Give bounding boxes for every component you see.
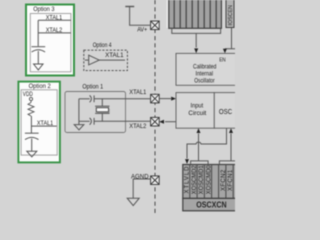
svg-text:OSC: OSC xyxy=(219,109,232,116)
wire capacitor to ground (Option 3) xyxy=(37,51,39,64)
ground (Option 2) xyxy=(27,151,37,157)
bracket over XFCN cells xyxy=(219,161,235,164)
svg-text:Option 1: Option 1 xyxy=(82,83,103,90)
arrow into calibrated oscillator (bracket) xyxy=(194,48,198,53)
wire XTAL1 pin (Option 3) xyxy=(38,19,71,21)
wire OSC to XTLVLD bit xyxy=(187,128,227,158)
wire XTAL2 pin (Option 3) xyxy=(38,32,71,34)
ground (Option 3) xyxy=(34,64,43,70)
pad XTAL2 xyxy=(151,117,160,126)
wire AGND pad to ground xyxy=(133,179,150,198)
register name band OSCXCN xyxy=(183,198,241,210)
register OSCXCN xyxy=(183,165,241,199)
svg-text:Calibrated: Calibrated xyxy=(193,63,217,70)
wire XFCN bits to OSC xyxy=(230,134,232,161)
svg-text:EN: EN xyxy=(219,57,226,63)
calibrated internal oscillator box xyxy=(176,53,252,85)
wire rail to ground (Option 1) xyxy=(78,121,80,124)
capacitor (Option 2) xyxy=(25,133,39,139)
wire resistor to node (Option 2) xyxy=(30,116,32,133)
wire cap to XTAL1 pad (Option 1) xyxy=(94,98,150,100)
ground (Option 1) xyxy=(74,125,84,130)
AV+ power symbol xyxy=(125,7,150,26)
pad AGND xyxy=(151,176,160,185)
svg-text:XTAL1: XTAL1 xyxy=(129,89,147,96)
bracket under OSCICN register xyxy=(172,28,221,33)
node circle VDD (Option 2) xyxy=(29,97,32,100)
svg-text:XTLVLD: XTLVLD xyxy=(185,166,191,194)
svg-text:AV+: AV+ xyxy=(137,27,147,34)
chip boundary dashed line xyxy=(154,0,156,215)
svg-text:IOSCEN: IOSCEN xyxy=(228,5,234,26)
crystal (Option 1) xyxy=(95,106,110,113)
wire vertical rail (Option 3) xyxy=(37,20,39,46)
svg-text:Input: Input xyxy=(191,102,204,109)
svg-text:XOSCMD2: XOSCMD2 xyxy=(192,165,198,195)
svg-text:Option 3: Option 3 xyxy=(33,6,55,13)
wire VDD to resistor (Option 2) xyxy=(30,101,32,103)
svg-text:XOSCMD0: XOSCMD0 xyxy=(207,165,213,195)
option 4 xyxy=(84,42,128,70)
arrow into calibrated oscillator (EN) xyxy=(223,49,227,54)
wire capacitor to ground (Option 2) xyxy=(31,139,33,152)
input circuit box xyxy=(176,93,214,129)
svg-text:XTAL2: XTAL2 xyxy=(129,123,147,130)
svg-text:XTAL1: XTAL1 xyxy=(105,52,124,59)
wire cap to XTAL2 pad (Option 1) xyxy=(94,120,150,122)
svg-text:XFCN1: XFCN1 xyxy=(228,169,234,191)
arrow into input circuit (XTAL1) xyxy=(171,97,176,101)
svg-text:Circuit: Circuit xyxy=(188,110,206,117)
register cell IOSCEN xyxy=(226,0,234,28)
wire crystal bottom (Option 1) xyxy=(101,113,103,121)
svg-text:XOSCMD1: XOSCMD1 xyxy=(199,165,205,195)
option 2 box xyxy=(18,82,60,163)
wire IOSCEN to EN xyxy=(225,28,236,49)
capacitor bottom (Option 1) xyxy=(79,118,94,125)
wire crystal top (Option 1) xyxy=(101,99,103,107)
svg-text:Oscillator: Oscillator xyxy=(194,77,215,84)
register OSCICN cells (top, cropped) xyxy=(167,0,221,28)
wire buffer input stub (Option 4) xyxy=(85,59,89,61)
wire XTAL1 pad to input circuit xyxy=(159,98,171,100)
OSC box xyxy=(214,93,252,129)
ground (AGND) xyxy=(127,198,139,205)
bracket over XOSCMD cells xyxy=(191,161,209,164)
svg-text:Option 2: Option 2 xyxy=(29,83,52,90)
option 1 box xyxy=(65,83,126,132)
arrow into XTAL2 pad xyxy=(159,120,164,124)
resistor (Option 2) xyxy=(28,103,34,117)
svg-text:Internal: Internal xyxy=(196,70,214,77)
wire XOSCMD bits to input circuit xyxy=(198,134,200,161)
wire buffer output (Option 4) xyxy=(99,59,125,61)
wire left rail (Option 1) xyxy=(78,99,80,122)
wire input circuit to XTAL2 pad xyxy=(165,121,176,123)
option 3 box xyxy=(26,5,74,76)
capacitor (Option 3) xyxy=(32,47,46,52)
arrow into XTLVLD cell xyxy=(185,159,189,164)
pad XTAL1 xyxy=(151,94,160,103)
pad AV+ xyxy=(151,21,160,30)
buffer (Option 4) xyxy=(89,55,100,65)
svg-text:OSCXCN: OSCXCN xyxy=(196,200,227,209)
svg-text:VDD: VDD xyxy=(23,91,33,98)
arrow into OSC box (XFCN) xyxy=(229,128,233,133)
svg-text:XFCN2: XFCN2 xyxy=(221,169,227,191)
wire bracket to calibrated oscillator xyxy=(195,33,197,47)
wire XTAL1 pin (Option 2) xyxy=(31,125,56,127)
svg-text:Option 4: Option 4 xyxy=(93,42,112,49)
capacitor top (Option 1) xyxy=(79,95,94,102)
arrow into input circuit (XOSCMD) xyxy=(197,128,201,133)
